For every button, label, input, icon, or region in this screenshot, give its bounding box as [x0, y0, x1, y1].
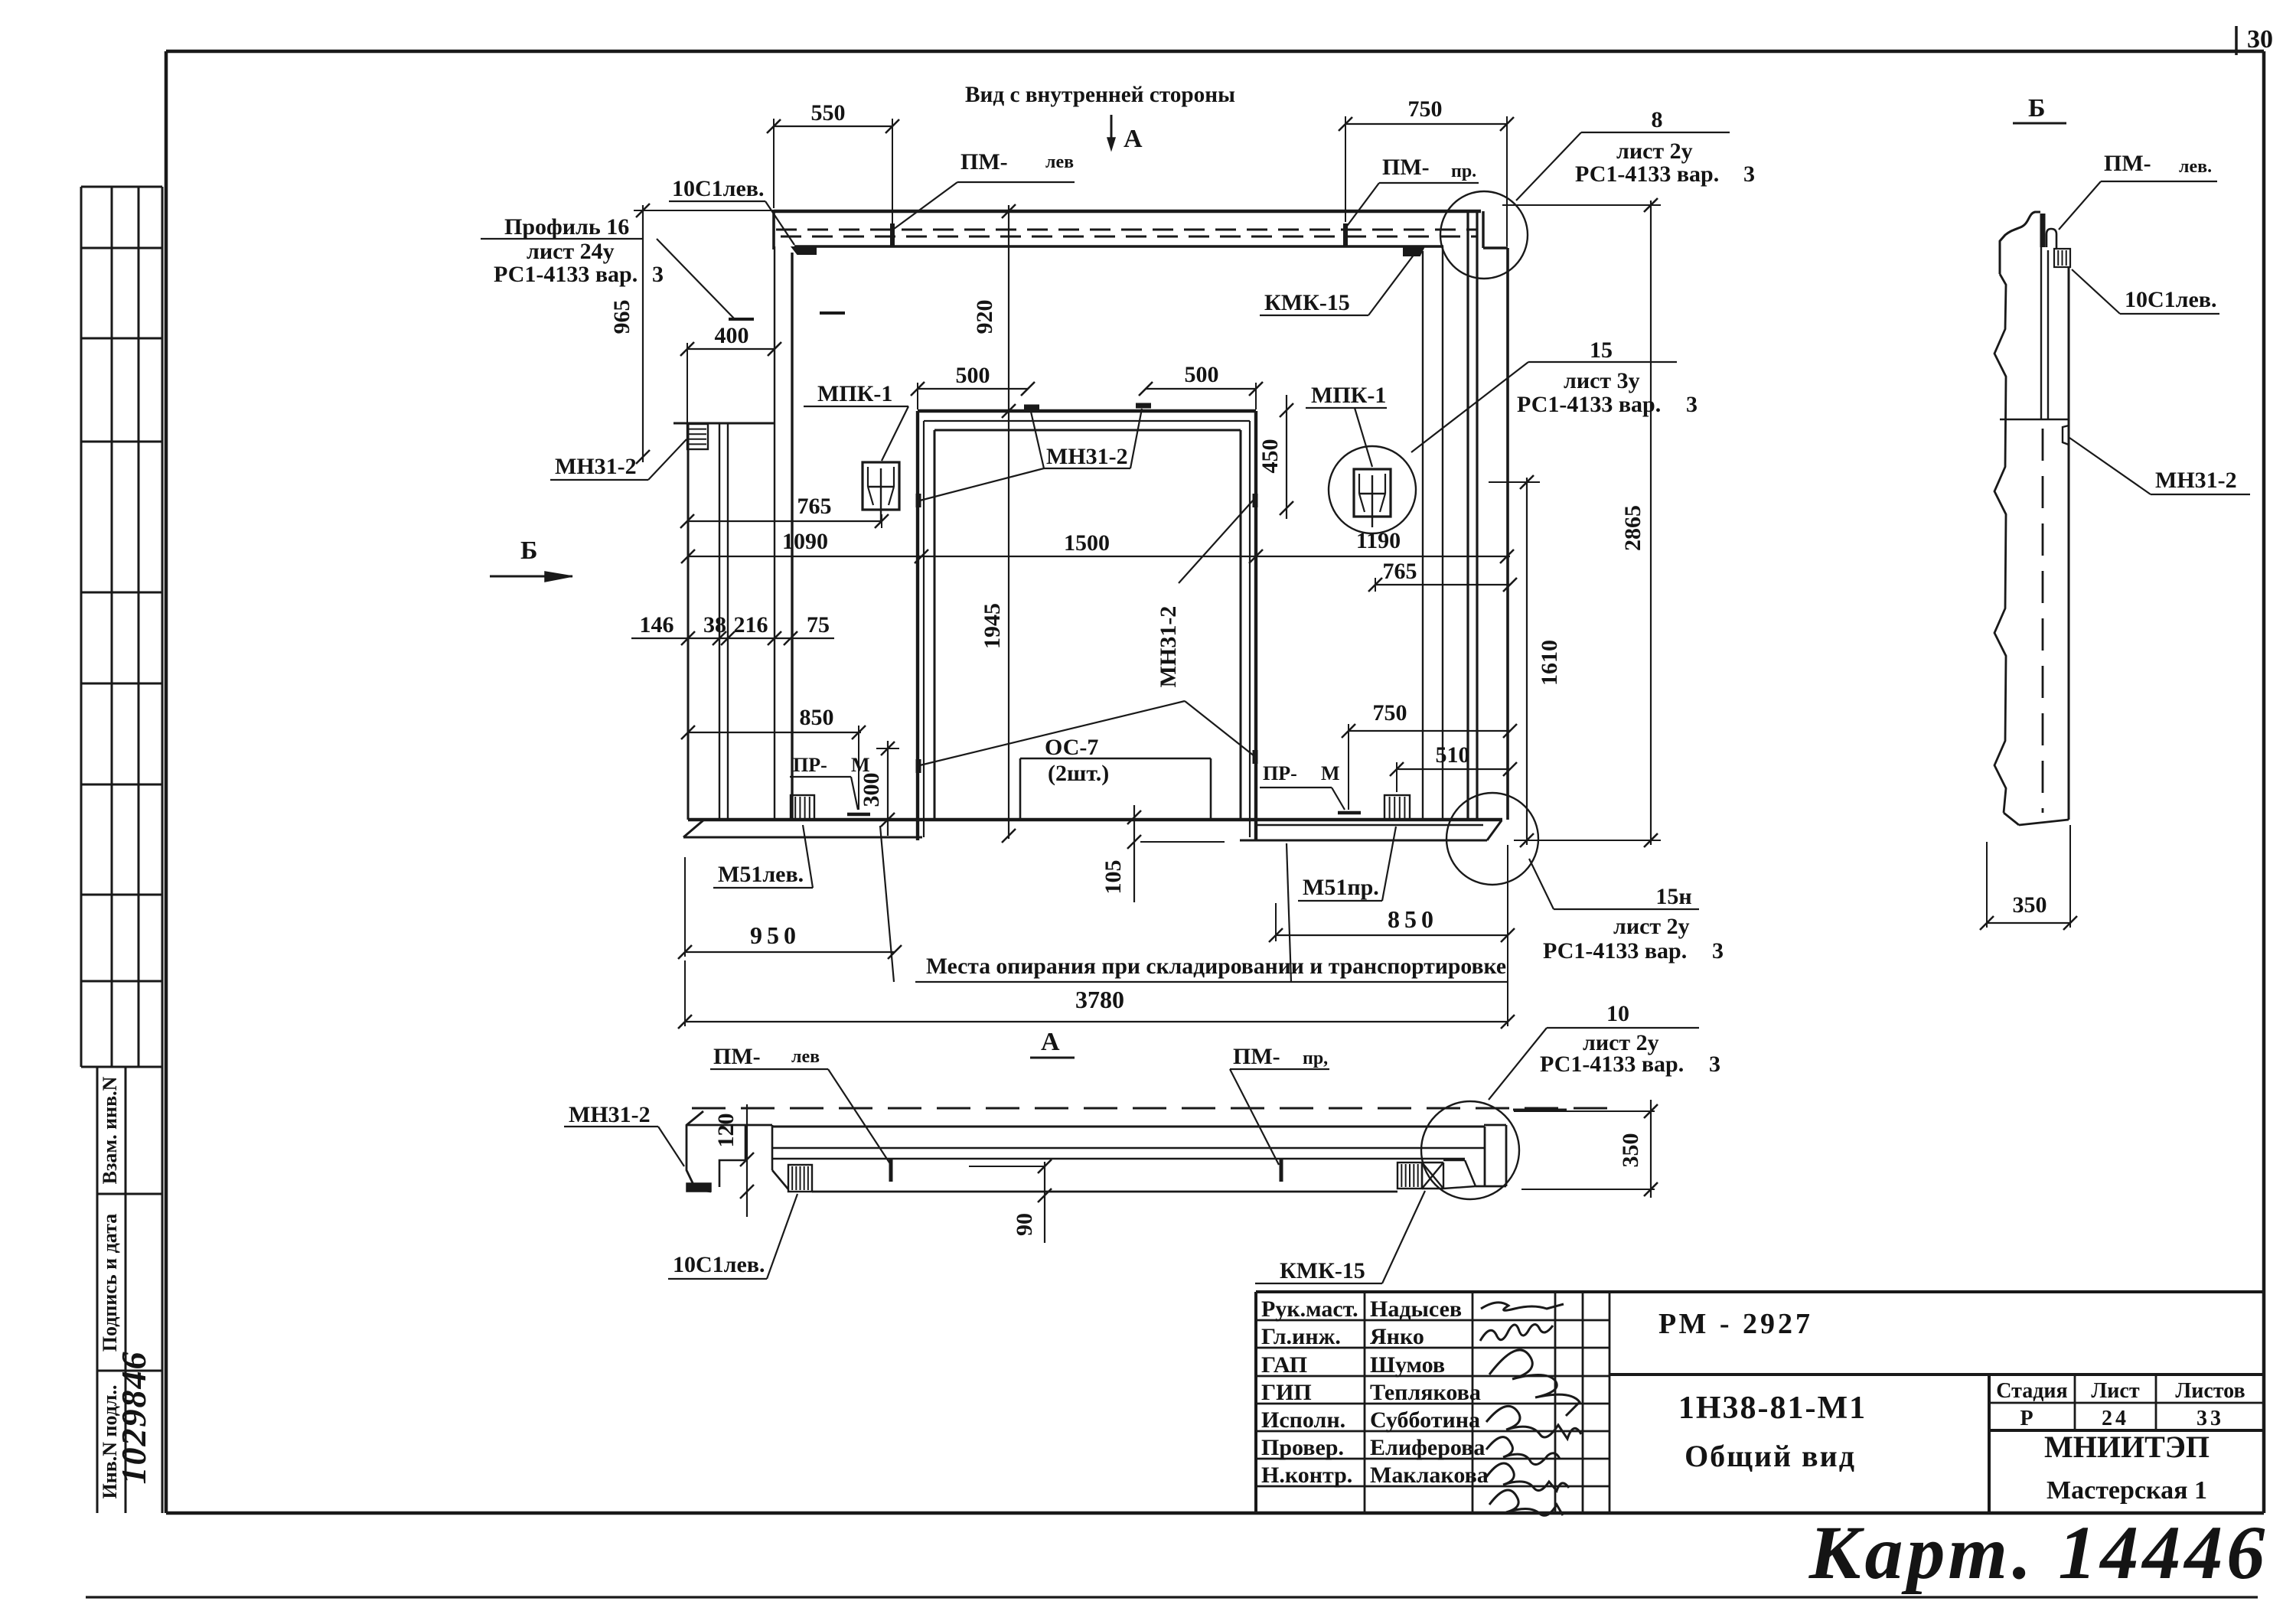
svg-text:КМК-15: КМК-15	[1264, 290, 1350, 315]
svg-text:Места опирания при складирован: Места опирания при складировании и транс…	[926, 954, 1506, 979]
svg-text:350: 350	[2013, 892, 2047, 918]
detail circle 10 section A	[1421, 1101, 1519, 1199]
svg-text:М51лев.: М51лев.	[718, 862, 804, 887]
svg-text:550: 550	[811, 100, 846, 126]
dimension 350 section B	[1980, 825, 2077, 930]
label PR-M left	[790, 754, 870, 810]
PM mark right on beam	[1343, 223, 1348, 246]
anchor MPK-1 left seat symbol	[863, 462, 899, 520]
section mark B left arrow	[490, 572, 572, 582]
OS-7 resting zone box	[1020, 758, 1211, 818]
svg-text:лист 3у: лист 3у	[1564, 368, 1640, 393]
callout 15 list 3u RS1-4133 var 3	[1411, 338, 1698, 452]
svg-text:15н: 15н	[1655, 884, 1691, 909]
right rib verticals	[1423, 211, 1477, 820]
label Mesta opiraniya	[880, 826, 1507, 982]
svg-text:Исполн.: Исполн.	[1261, 1407, 1345, 1433]
label PM-lev section A	[710, 1044, 891, 1165]
svg-text:лев: лев	[1045, 152, 1074, 172]
svg-text:75: 75	[807, 612, 830, 638]
section B anchor 10S1lev hatched box	[2054, 249, 2070, 267]
detail circle around MPK-1 right	[1329, 446, 1416, 533]
svg-text:Карт. 14446: Карт. 14446	[1808, 1510, 2269, 1595]
svg-text:МН31-2: МН31-2	[1156, 606, 1181, 688]
svg-text:Б: Б	[520, 536, 537, 565]
section B left jagged edge	[1994, 274, 2006, 813]
svg-text:РС1-4133 вар.: РС1-4133 вар.	[494, 262, 638, 287]
left ledge top edge	[673, 422, 775, 425]
label MPK-1 right	[1306, 383, 1387, 467]
section B panel profile	[2000, 212, 2069, 820]
svg-text:РС1-4133 вар.: РС1-4133 вар.	[1540, 1052, 1684, 1077]
label PM-pr section A	[1230, 1044, 1329, 1165]
label 10S1lev section B	[2072, 269, 2219, 314]
dimension line 1090-1500-1190	[681, 549, 1514, 563]
svg-text:30: 30	[2247, 25, 2273, 54]
left sidebar lower boxes	[97, 1067, 162, 1513]
svg-text:3: 3	[1709, 1052, 1720, 1077]
svg-text:МН31-2: МН31-2	[1046, 444, 1128, 469]
svg-text:10С1лев.: 10С1лев.	[673, 1252, 765, 1277]
door opening inner frame	[934, 430, 1241, 820]
dimension 510	[1390, 762, 1517, 792]
title block column lines	[1365, 1292, 1609, 1513]
dimension 765 right	[1368, 578, 1517, 592]
label MPK-1 left	[804, 381, 908, 461]
level mark dash left	[729, 318, 754, 321]
svg-text:400: 400	[715, 323, 749, 348]
svg-text:Подпись и дата: Подпись и дата	[99, 1214, 121, 1352]
section B bottom edge	[2004, 813, 2069, 825]
svg-text:Субботина: Субботина	[1370, 1407, 1480, 1433]
svg-text:ПМ-: ПМ-	[1233, 1044, 1280, 1069]
svg-text:Р: Р	[2020, 1407, 2033, 1430]
svg-text:510: 510	[1436, 742, 1470, 768]
svg-text:ОС-7: ОС-7	[1045, 735, 1098, 760]
page number 30 tick	[2235, 26, 2238, 55]
svg-text:МПК-1: МПК-1	[817, 381, 892, 406]
anchor M51lev hatched box	[791, 795, 814, 820]
svg-text:1610: 1610	[1537, 640, 1562, 686]
svg-text:Стадия: Стадия	[1996, 1379, 2067, 1403]
svg-text:Рук.маст.: Рук.маст.	[1261, 1296, 1358, 1322]
section A dashed centerline right stub	[1513, 1109, 1567, 1111]
dimension 120 section A	[740, 1104, 754, 1217]
svg-text:3780: 3780	[1075, 986, 1124, 1013]
svg-text:Гл.инж.: Гл.инж.	[1261, 1324, 1341, 1349]
svg-text:М51пр.: М51пр.	[1303, 875, 1379, 900]
svg-text:965: 965	[609, 300, 634, 334]
section A body layer line 1	[772, 1147, 1485, 1149]
svg-text:ПМ-: ПМ-	[713, 1044, 761, 1069]
svg-text:750: 750	[1373, 700, 1407, 726]
label 10S1lev section A	[668, 1194, 797, 1279]
svg-text:пр.: пр.	[1451, 161, 1476, 181]
dimension 765 left	[680, 514, 889, 528]
svg-text:КМК-15: КМК-15	[1280, 1258, 1365, 1283]
panel bottom sill edge	[688, 818, 1502, 821]
svg-text:2865: 2865	[1620, 505, 1645, 551]
svg-text:Надысев: Надысев	[1370, 1296, 1462, 1322]
svg-text:500: 500	[1185, 362, 1219, 387]
title block signatures	[1480, 1303, 1581, 1515]
svg-text:24: 24	[2102, 1407, 2129, 1430]
label M51lev	[713, 825, 813, 888]
svg-text:33: 33	[2197, 1407, 2224, 1430]
label KMK-15 section A	[1255, 1191, 1425, 1283]
anchor MPK-1 right seat symbol	[1354, 469, 1391, 527]
section A dashed centerline	[692, 1107, 1607, 1110]
callout 10 list 2u RS1-4133 var 3	[1489, 1001, 1720, 1100]
svg-text:Профиль 16: Профиль 16	[504, 214, 629, 240]
title block role labels	[1261, 1296, 1489, 1488]
svg-text:450: 450	[1257, 439, 1283, 474]
callout 15n list 2u RS1-4133 var 3	[1529, 859, 1724, 964]
svg-text:300: 300	[859, 773, 884, 807]
dimension 1610	[1489, 475, 1540, 847]
svg-text:Шумов: Шумов	[1370, 1352, 1445, 1378]
label MN31-2 section B	[2069, 438, 2250, 494]
section A left rib edge	[772, 1125, 788, 1189]
svg-text:(2шт.): (2шт.)	[1048, 761, 1109, 786]
dimension 90 section A	[969, 1159, 1052, 1243]
svg-text:500: 500	[956, 363, 990, 388]
label PM-pr top	[1345, 155, 1479, 228]
corner wedge KMK-15 left	[792, 247, 816, 254]
label Profil 16 callout	[481, 214, 735, 319]
section B internal verticals	[2041, 247, 2048, 419]
label PR-M right	[1260, 762, 1345, 810]
section A right end cap	[1476, 1125, 1506, 1186]
section A rib bottom edge	[812, 1191, 1397, 1193]
svg-text:РМ - 2927: РМ - 2927	[1658, 1308, 1813, 1340]
svg-text:90: 90	[1012, 1213, 1037, 1236]
door opening outer frame	[918, 411, 1256, 840]
svg-text:ГИП: ГИП	[1261, 1380, 1312, 1405]
PR-M mark left	[847, 813, 870, 817]
svg-text:3: 3	[652, 262, 664, 287]
section A anchor KMK-15 hatched box	[1397, 1163, 1422, 1189]
left rib verticals	[688, 246, 775, 820]
dimension 950	[678, 857, 902, 959]
section A left cap black wedge	[687, 1183, 711, 1192]
door opening middle frame	[924, 421, 1250, 837]
svg-text:пр,: пр,	[1303, 1048, 1328, 1068]
dimension 920	[1002, 204, 1016, 839]
svg-text:А: А	[1041, 1028, 1060, 1056]
dimension 550	[767, 119, 899, 223]
panel top-right corner step	[1483, 211, 1508, 248]
panel left beam edge	[772, 211, 775, 249]
label PM-lev section B	[2059, 151, 2217, 230]
svg-text:М: М	[1321, 762, 1340, 784]
svg-text:А: А	[1124, 125, 1143, 153]
svg-text:10: 10	[1606, 1001, 1629, 1026]
svg-text:Взам. инв.N: Взам. инв.N	[99, 1076, 121, 1184]
callout 8 list 2u RS1-4133 var 3	[1516, 107, 1755, 201]
dimension 400	[680, 342, 781, 423]
svg-text:лист 24у: лист 24у	[527, 239, 615, 264]
dimension 3780	[678, 845, 1515, 1029]
svg-text:ПМ-: ПМ-	[1382, 155, 1430, 180]
svg-text:120: 120	[713, 1114, 739, 1148]
PM mark left on beam	[890, 223, 895, 246]
title block outer frame	[1256, 1292, 2264, 1513]
svg-text:350: 350	[1618, 1133, 1643, 1168]
label MN31-2 door head	[920, 409, 1142, 501]
svg-text:Теплякова: Теплякова	[1370, 1380, 1481, 1405]
bottom rule line	[86, 1596, 2258, 1598]
section B title	[2013, 94, 2066, 123]
svg-text:216: 216	[734, 612, 768, 638]
left support foot	[683, 820, 922, 837]
level mark dash right	[820, 311, 845, 315]
svg-text:765: 765	[1383, 559, 1417, 584]
dimension 500 left	[911, 382, 1035, 409]
section arrow A top	[1107, 115, 1115, 150]
dimension 965	[634, 204, 774, 464]
dimension 850 left	[681, 726, 866, 810]
section A PM mark left	[889, 1159, 893, 1182]
section A body top edge	[772, 1126, 1485, 1128]
corner wedge KMK-15 right	[1404, 246, 1424, 256]
svg-text:МН31-2: МН31-2	[569, 1102, 651, 1127]
dimension 450	[1280, 395, 1293, 519]
panel inner left vertical below beam	[791, 253, 793, 820]
anchor M51pr hatched box	[1384, 795, 1410, 820]
dimension 300	[876, 741, 899, 836]
svg-text:ПР-: ПР-	[793, 754, 827, 776]
label MN31-2 left	[550, 439, 687, 480]
svg-text:1190: 1190	[1356, 528, 1401, 553]
svg-text:лист 2у: лист 2у	[1613, 914, 1690, 939]
svg-text:МН31-2: МН31-2	[2155, 468, 2237, 493]
svg-text:Вид с внутренней стороны: Вид с внутренней стороны	[965, 82, 1235, 107]
label KMK-15 main view	[1260, 254, 1414, 315]
svg-text:Общий вид: Общий вид	[1684, 1439, 1856, 1473]
title block stadiya list listov grid	[1989, 1375, 2264, 1430]
svg-text:3: 3	[1686, 392, 1698, 417]
section B mid horizontal joint	[2000, 419, 2069, 421]
svg-text:8: 8	[1652, 107, 1663, 132]
svg-text:М: М	[851, 754, 870, 776]
svg-text:ГАП: ГАП	[1261, 1352, 1307, 1378]
svg-text:МПК-1: МПК-1	[1311, 383, 1386, 408]
svg-text:ПМ-: ПМ-	[2104, 151, 2151, 176]
dimension line 146-38-216-75	[631, 631, 834, 645]
dimension 1945 ticks	[1002, 829, 1016, 843]
svg-text:38: 38	[703, 612, 726, 638]
label M51pr	[1298, 827, 1396, 901]
svg-text:10С1лев.: 10С1лев.	[2125, 287, 2217, 312]
svg-text:3: 3	[1743, 161, 1755, 187]
svg-text:750: 750	[1408, 96, 1443, 122]
svg-text:Провер.: Провер.	[1261, 1435, 1344, 1460]
svg-text:РС1-4133 вар.: РС1-4133 вар.	[1517, 392, 1661, 417]
svg-text:Янко: Янко	[1370, 1324, 1424, 1349]
svg-text:10С1лев.: 10С1лев.	[672, 176, 765, 201]
svg-text:РС1-4133 вар.: РС1-4133 вар.	[1575, 161, 1719, 187]
svg-text:765: 765	[797, 494, 832, 519]
svg-text:1945: 1945	[980, 603, 1005, 649]
panel right outer edge	[1506, 248, 1509, 820]
section A body layer line 2	[772, 1158, 1465, 1159]
svg-text:950: 950	[750, 921, 801, 949]
dimension 750 top	[1339, 116, 1514, 246]
detail circle 15n bottom-right corner	[1446, 793, 1538, 885]
section A anchor 10S1lev hatched box	[788, 1165, 812, 1192]
section B dashed centerline	[2042, 429, 2044, 813]
svg-text:лист 2у: лист 2у	[1616, 139, 1693, 164]
panel top beam bottom edge	[794, 245, 1443, 247]
title block row lines left part	[1256, 1320, 1609, 1486]
dimension 105	[1127, 805, 1225, 902]
section A left end cap MN31-2 profile	[687, 1111, 772, 1192]
svg-text:1Н38-81-М1: 1Н38-81-М1	[1678, 1391, 1867, 1426]
svg-text:1090: 1090	[782, 529, 828, 554]
section A PM mark right	[1280, 1159, 1283, 1182]
svg-text:146: 146	[640, 612, 674, 638]
svg-text:105: 105	[1101, 860, 1126, 895]
svg-text:РС1-4133 вар.: РС1-4133 вар.	[1543, 938, 1687, 964]
svg-text:Лист: Лист	[2091, 1379, 2139, 1403]
MN31-2 tick marks on door jambs	[918, 494, 1255, 773]
svg-text:850: 850	[1388, 905, 1438, 933]
left sidebar stamp grid	[81, 187, 162, 1067]
svg-text:МНИИТЭП: МНИИТЭП	[2044, 1430, 2210, 1464]
svg-text:МН31-2: МН31-2	[555, 454, 637, 479]
svg-text:лев: лев	[791, 1047, 820, 1067]
MN31-2 tick marks on door head	[1024, 406, 1151, 407]
svg-text:920: 920	[972, 300, 997, 334]
svg-text:Н.контр.: Н.контр.	[1261, 1463, 1352, 1488]
label MN31-2 vertical right	[920, 501, 1254, 765]
section A title	[1030, 1028, 1075, 1058]
section A right foot trapezoid	[1443, 1160, 1476, 1189]
svg-text:850: 850	[800, 705, 834, 730]
detail circle 8 top-right corner	[1440, 191, 1528, 279]
section B MN31-2 notch	[2063, 426, 2069, 445]
section A foot cross brace	[1422, 1163, 1443, 1189]
label MN31-2 section A	[564, 1102, 684, 1166]
svg-text:Мастерская 1: Мастерская 1	[2047, 1476, 2207, 1505]
svg-text:ПР-: ПР-	[1263, 762, 1297, 784]
svg-text:1029846: 1029846	[114, 1351, 153, 1485]
dimension 850 bottom right	[1269, 903, 1515, 942]
dimension 500 right	[1139, 382, 1263, 409]
PR-M mark right	[1338, 811, 1361, 815]
svg-text:лев.: лев.	[2179, 157, 2212, 177]
svg-text:Б: Б	[2028, 94, 2045, 122]
svg-text:1500: 1500	[1064, 530, 1110, 556]
label 10S1lev top-left	[669, 176, 794, 245]
label PM-lev top	[891, 149, 1075, 231]
svg-text:3: 3	[1712, 938, 1724, 964]
dimension 2865	[1502, 198, 1661, 847]
dimension 350 section A	[1514, 1100, 1658, 1198]
svg-text:15: 15	[1590, 338, 1613, 363]
svg-text:Листов: Листов	[2175, 1379, 2245, 1403]
svg-text:Елиферова: Елиферова	[1370, 1435, 1485, 1460]
panel top beam top edge	[774, 210, 1481, 214]
anchor MN31-2 left hatched box	[687, 424, 708, 449]
svg-text:Маклакова: Маклакова	[1370, 1463, 1489, 1488]
right support foot	[1240, 820, 1502, 840]
panel top beam hidden dashed lines	[776, 230, 1478, 236]
svg-text:ПМ-: ПМ-	[960, 149, 1008, 174]
dimension 750 right	[1342, 724, 1517, 810]
title block divider middle	[1609, 1375, 2264, 1513]
